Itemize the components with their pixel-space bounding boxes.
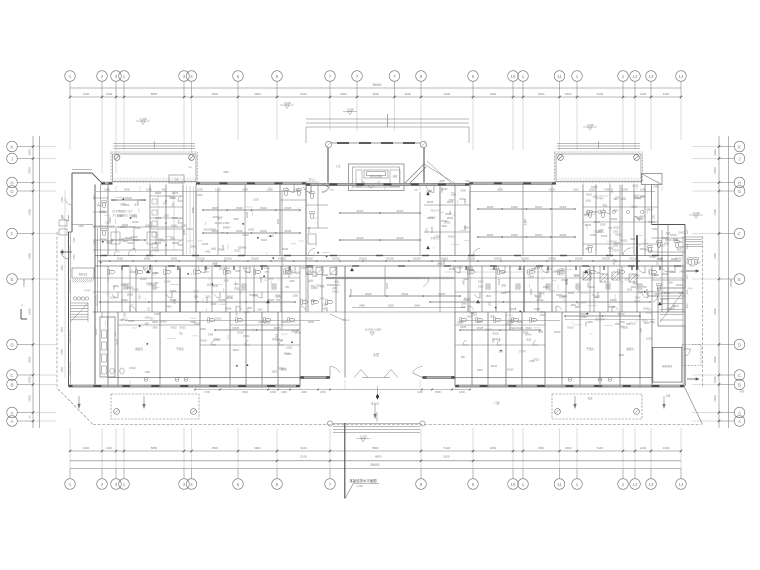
- svg-text:1350: 1350: [315, 284, 321, 287]
- svg-text:2400: 2400: [97, 204, 103, 207]
- svg-text:3400: 3400: [478, 286, 484, 289]
- svg-text:DN40: DN40: [210, 229, 217, 232]
- svg-text:1500: 1500: [164, 214, 170, 217]
- svg-text:DN20: DN20: [654, 293, 661, 296]
- svg-text:DN50: DN50: [227, 295, 234, 298]
- svg-text:3400: 3400: [121, 284, 127, 287]
- svg-text:F: F: [738, 231, 741, 236]
- svg-text:1350: 1350: [566, 279, 568, 285]
- svg-text:DN25: DN25: [646, 288, 649, 295]
- svg-text:1200: 1200: [28, 149, 32, 156]
- svg-text:5100: 5100: [300, 446, 307, 450]
- svg-text:DN32: DN32: [491, 365, 498, 368]
- svg-text:6300: 6300: [713, 308, 717, 315]
- svg-text:1300: 1300: [153, 272, 159, 275]
- svg-text:DN25: DN25: [630, 323, 637, 326]
- svg-text:10: 10: [511, 74, 516, 79]
- svg-text:DN25: DN25: [264, 268, 270, 270]
- svg-text:1060: 1060: [146, 187, 152, 191]
- svg-text:DN32: DN32: [460, 198, 467, 201]
- svg-text:DN32: DN32: [248, 229, 255, 232]
- svg-text:950: 950: [461, 356, 466, 359]
- svg-text:1350: 1350: [173, 202, 175, 208]
- svg-text:3200: 3200: [144, 317, 150, 320]
- svg-text:750: 750: [585, 248, 590, 251]
- svg-text:3600: 3600: [538, 446, 545, 450]
- svg-text:更衣: 更衣: [634, 194, 639, 198]
- svg-text:DN32: DN32: [568, 292, 575, 295]
- svg-text:DN25: DN25: [657, 259, 664, 261]
- svg-text:更衣: 更衣: [677, 247, 682, 251]
- svg-text:1050: 1050: [148, 284, 154, 287]
- svg-text:DN32: DN32: [615, 234, 622, 237]
- svg-text:12: 12: [633, 74, 638, 79]
- svg-text:DN32: DN32: [511, 233, 518, 237]
- svg-text:2900: 2900: [388, 303, 394, 307]
- svg-text:1500: 1500: [647, 295, 653, 298]
- svg-text:DN25: DN25: [130, 271, 137, 274]
- svg-text:750: 750: [179, 332, 184, 335]
- svg-text:5850: 5850: [151, 92, 158, 96]
- svg-text:DN100: DN100: [197, 257, 205, 260]
- svg-text:DN25: DN25: [427, 201, 434, 204]
- svg-text:DN32: DN32: [260, 229, 267, 233]
- svg-text:2600: 2600: [490, 446, 497, 450]
- svg-text:1180: 1180: [281, 390, 287, 394]
- svg-text:2600: 2600: [490, 92, 497, 96]
- svg-text:1300: 1300: [200, 328, 206, 331]
- svg-text:DN32: DN32: [611, 240, 618, 243]
- svg-text:DN20: DN20: [632, 185, 639, 188]
- svg-text:走廊: 走廊: [212, 262, 218, 266]
- svg-text:2400: 2400: [442, 187, 444, 193]
- svg-text:DN32: DN32: [640, 216, 647, 219]
- svg-text:1300: 1300: [592, 196, 598, 199]
- svg-text:DN32: DN32: [511, 205, 518, 209]
- svg-text:J: J: [738, 156, 740, 161]
- svg-text:DN32: DN32: [333, 291, 340, 294]
- svg-text:DN50: DN50: [117, 257, 124, 260]
- svg-text:DN150: DN150: [386, 257, 394, 260]
- svg-text:DN25: DN25: [100, 239, 107, 242]
- svg-text:1050: 1050: [543, 286, 549, 289]
- svg-text:2460: 2460: [414, 303, 420, 307]
- svg-text:1350: 1350: [244, 311, 250, 314]
- svg-text:K: K: [11, 144, 14, 149]
- svg-text:27000: 27000: [22, 278, 26, 287]
- svg-text:DN25: DN25: [125, 196, 132, 200]
- svg-text:DN25: DN25: [397, 236, 404, 240]
- svg-text:DN40: DN40: [585, 224, 592, 227]
- svg-text:1500: 1500: [138, 198, 140, 204]
- svg-text:1800: 1800: [140, 294, 142, 300]
- svg-text:DN100: DN100: [602, 257, 610, 260]
- svg-text:DN25: DN25: [128, 320, 135, 323]
- svg-text:DN20: DN20: [649, 256, 656, 259]
- svg-text:1465: 1465: [604, 187, 610, 191]
- svg-text:DN32: DN32: [594, 231, 601, 234]
- svg-text:DN32: DN32: [260, 206, 267, 210]
- svg-text:DN50: DN50: [308, 226, 311, 233]
- svg-text:1500: 1500: [600, 224, 606, 227]
- svg-text:DN32: DN32: [554, 331, 561, 334]
- svg-text:1300: 1300: [630, 238, 636, 241]
- svg-text:1250: 1250: [294, 187, 300, 191]
- svg-text:1550: 1550: [61, 327, 64, 333]
- svg-text:11: 11: [557, 74, 562, 79]
- svg-text:更衣: 更衣: [295, 270, 300, 274]
- svg-text:5050: 5050: [619, 321, 625, 324]
- svg-text:DN25: DN25: [117, 215, 124, 218]
- svg-text:DN25: DN25: [477, 326, 484, 330]
- svg-text:1500: 1500: [486, 295, 492, 298]
- svg-text:DN20: DN20: [586, 194, 593, 197]
- svg-text:DN50: DN50: [160, 321, 167, 324]
- svg-text:2400: 2400: [110, 216, 112, 222]
- svg-text:1050: 1050: [426, 190, 432, 193]
- svg-text:-0.600: -0.600: [692, 211, 700, 215]
- svg-text:27000: 27000: [729, 278, 733, 287]
- svg-text:DN25: DN25: [429, 216, 436, 219]
- svg-text:1350: 1350: [490, 301, 492, 307]
- svg-text:1035: 1035: [61, 265, 64, 271]
- svg-text:1200: 1200: [713, 149, 717, 156]
- svg-text:12: 12: [633, 482, 638, 487]
- svg-text:1050: 1050: [588, 282, 590, 288]
- svg-text:更衣: 更衣: [169, 195, 174, 199]
- svg-text:1300: 1300: [434, 235, 440, 238]
- svg-text:1520: 1520: [687, 229, 689, 235]
- svg-text:±0.000(-0.080): ±0.000(-0.080): [365, 329, 382, 332]
- svg-text:DN32: DN32: [243, 234, 250, 237]
- svg-text:1250: 1250: [459, 390, 465, 394]
- svg-text:H: H: [10, 180, 13, 185]
- svg-text:DN25: DN25: [530, 288, 533, 295]
- svg-text:3400: 3400: [233, 218, 239, 221]
- svg-text:2400: 2400: [659, 245, 665, 248]
- svg-text:DN25: DN25: [285, 206, 292, 210]
- svg-text:1035: 1035: [74, 237, 76, 243]
- svg-text:1500: 1500: [466, 316, 472, 319]
- svg-text:5100: 5100: [597, 92, 604, 96]
- svg-text:更衣: 更衣: [538, 330, 543, 334]
- svg-text:1850: 1850: [267, 187, 273, 191]
- svg-text:干洗房: 干洗房: [176, 347, 184, 351]
- svg-text:1050: 1050: [154, 250, 160, 253]
- svg-text:1300: 1300: [627, 288, 633, 291]
- svg-text:3200: 3200: [224, 280, 230, 283]
- svg-text:洗衣: 洗衣: [602, 203, 607, 207]
- svg-text:DN25: DN25: [350, 288, 353, 295]
- svg-text:2400: 2400: [460, 190, 466, 193]
- svg-text:1050: 1050: [558, 270, 564, 273]
- svg-text:2400: 2400: [205, 250, 211, 253]
- svg-text:2400: 2400: [101, 211, 107, 214]
- svg-text:1500: 1500: [621, 198, 627, 201]
- svg-text:1300: 1300: [585, 200, 591, 203]
- svg-text:1060: 1060: [517, 268, 523, 271]
- svg-text:DN32: DN32: [679, 292, 686, 295]
- svg-text:1050: 1050: [119, 239, 125, 242]
- svg-text:DN50: DN50: [665, 239, 672, 242]
- svg-text:750: 750: [624, 279, 629, 282]
- svg-text:DN25: DN25: [574, 274, 581, 277]
- svg-text:2500: 2500: [435, 390, 441, 394]
- svg-text:DN32: DN32: [277, 339, 284, 342]
- svg-text:DN25: DN25: [127, 242, 134, 245]
- svg-text:DN50: DN50: [525, 327, 532, 330]
- svg-text:DN20: DN20: [673, 305, 680, 308]
- svg-text:2600: 2600: [497, 187, 503, 191]
- svg-text:3600: 3600: [373, 92, 380, 96]
- svg-text:C: C: [10, 373, 13, 378]
- svg-text:1500: 1500: [448, 199, 454, 202]
- svg-text:DN40: DN40: [441, 220, 448, 223]
- svg-text:1500: 1500: [247, 307, 253, 310]
- svg-text:2400: 2400: [124, 187, 130, 191]
- svg-text:DN25: DN25: [634, 300, 641, 303]
- svg-text:2400: 2400: [469, 312, 475, 315]
- svg-text:DN50: DN50: [664, 292, 671, 295]
- svg-text:DN150: DN150: [521, 257, 529, 260]
- svg-text:DN150: DN150: [467, 257, 475, 260]
- svg-text:1500: 1500: [677, 241, 683, 244]
- svg-text:DN25: DN25: [487, 233, 494, 237]
- svg-text:门廊: 门廊: [494, 401, 500, 405]
- svg-text:DN32: DN32: [486, 329, 493, 332]
- svg-text:DN25: DN25: [492, 332, 499, 335]
- svg-text:6300: 6300: [28, 308, 32, 315]
- svg-text:2400: 2400: [679, 271, 685, 274]
- svg-text:大堂: 大堂: [373, 352, 379, 357]
- svg-text:5850: 5850: [151, 446, 158, 450]
- svg-text:1550: 1550: [622, 187, 628, 191]
- svg-text:1400: 1400: [640, 92, 647, 96]
- svg-text:1150: 1150: [530, 268, 536, 271]
- svg-text:洗衣: 洗衣: [207, 283, 212, 287]
- svg-text:DN50: DN50: [246, 211, 249, 218]
- svg-text:DN25: DN25: [155, 217, 162, 220]
- svg-text:DN25: DN25: [234, 250, 241, 253]
- svg-text:1580: 1580: [181, 224, 187, 227]
- svg-text:1595: 1595: [640, 187, 646, 191]
- svg-text:5100: 5100: [443, 455, 450, 459]
- svg-text:洗衣: 洗衣: [599, 228, 604, 232]
- svg-text:3500: 3500: [242, 390, 248, 394]
- svg-text:1800: 1800: [114, 284, 116, 290]
- svg-text:+0.000: +0.000: [84, 290, 92, 292]
- svg-text:洗衣: 洗衣: [490, 314, 495, 318]
- svg-text:DN50: DN50: [667, 271, 674, 274]
- svg-text:洗衣: 洗衣: [334, 280, 339, 284]
- svg-text:DN32: DN32: [261, 239, 268, 242]
- svg-text:5100: 5100: [300, 92, 307, 96]
- svg-text:DN20: DN20: [646, 312, 653, 315]
- svg-text:G: G: [10, 189, 14, 194]
- svg-text:3100: 3100: [83, 92, 90, 96]
- svg-text:1560: 1560: [687, 303, 689, 309]
- svg-text:DN32: DN32: [236, 229, 243, 233]
- svg-text:上层: 上层: [335, 164, 341, 168]
- svg-text:DN25: DN25: [140, 278, 147, 281]
- svg-text:DN150: DN150: [359, 257, 367, 260]
- svg-text:DN25: DN25: [487, 205, 494, 209]
- svg-text:DN25: DN25: [244, 268, 250, 270]
- svg-text:2400: 2400: [257, 309, 263, 312]
- svg-text:DN25: DN25: [157, 239, 164, 242]
- svg-text:1400: 1400: [106, 446, 113, 450]
- svg-text:DN32: DN32: [187, 228, 194, 231]
- svg-text:1650: 1650: [649, 321, 655, 324]
- svg-text:1000: 1000: [28, 376, 32, 383]
- svg-text:-0.600: -0.600: [346, 108, 354, 112]
- svg-text:2400: 2400: [152, 327, 158, 330]
- svg-text:DN50: DN50: [144, 257, 151, 260]
- svg-text:3000: 3000: [713, 356, 717, 363]
- svg-text:DN25: DN25: [535, 295, 542, 298]
- svg-text:1800: 1800: [565, 92, 572, 96]
- svg-text:洗衣: 洗衣: [620, 324, 625, 328]
- svg-text:DN20: DN20: [567, 327, 574, 330]
- svg-text:DN32: DN32: [662, 273, 669, 276]
- svg-text:1350: 1350: [286, 353, 292, 356]
- svg-text:DN25: DN25: [286, 346, 293, 349]
- svg-text:8800: 8800: [375, 455, 382, 459]
- svg-text:DN50: DN50: [448, 236, 455, 239]
- svg-text:更衣: 更衣: [632, 205, 637, 209]
- svg-text:1800: 1800: [612, 188, 614, 194]
- svg-text:A: A: [11, 419, 14, 424]
- svg-text:DN32: DN32: [233, 349, 240, 352]
- svg-text:更衣: 更衣: [211, 247, 216, 251]
- svg-text:DN150: DN150: [548, 257, 556, 260]
- svg-text:-0.600: -0.600: [283, 101, 291, 105]
- svg-text:950: 950: [145, 323, 150, 326]
- svg-text:下: 下: [376, 420, 379, 423]
- svg-text:DN25: DN25: [447, 217, 454, 220]
- svg-text:DN25: DN25: [560, 233, 567, 237]
- svg-text:1500: 1500: [193, 291, 199, 294]
- svg-text:DN20: DN20: [327, 284, 334, 287]
- svg-text:1500: 1500: [464, 227, 470, 230]
- svg-text:DN20: DN20: [506, 324, 513, 327]
- svg-text:1450: 1450: [61, 197, 64, 203]
- svg-text:3200: 3200: [289, 280, 295, 283]
- svg-text:1750: 1750: [74, 254, 76, 260]
- svg-text:2980: 2980: [359, 303, 365, 307]
- svg-text:1500: 1500: [493, 337, 495, 343]
- svg-text:740: 740: [465, 180, 470, 183]
- svg-text:DN32: DN32: [310, 271, 317, 274]
- svg-text:洗衣: 洗衣: [638, 289, 643, 293]
- svg-text:干洗房: 干洗房: [586, 347, 594, 351]
- svg-text:1700: 1700: [204, 390, 210, 394]
- svg-text:A: A: [11, 410, 14, 415]
- svg-text:2400: 2400: [439, 180, 445, 183]
- svg-text:3200: 3200: [673, 238, 679, 241]
- svg-text:950: 950: [499, 351, 504, 354]
- svg-text:DN20: DN20: [671, 258, 678, 261]
- svg-text:1500: 1500: [523, 332, 529, 335]
- svg-text:1500: 1500: [135, 227, 141, 230]
- svg-text:1570: 1570: [687, 274, 689, 280]
- svg-text:A: A: [738, 410, 741, 415]
- svg-text:DN25: DN25: [678, 232, 685, 235]
- svg-text:DN20: DN20: [556, 294, 563, 297]
- svg-text:1500: 1500: [653, 274, 659, 277]
- svg-text:1800: 1800: [308, 320, 314, 324]
- svg-text:DN40: DN40: [643, 308, 650, 311]
- svg-text:DN20: DN20: [122, 224, 129, 227]
- svg-text:1300: 1300: [613, 245, 619, 248]
- svg-text:1630: 1630: [270, 390, 276, 394]
- svg-text:13: 13: [649, 482, 654, 487]
- svg-text:DN25: DN25: [260, 276, 263, 283]
- svg-text:F: F: [11, 231, 14, 236]
- svg-text:3100: 3100: [663, 92, 670, 96]
- svg-text:DN50: DN50: [590, 234, 597, 237]
- svg-text:DN150: DN150: [305, 257, 313, 260]
- svg-text:洗衣: 洗衣: [194, 294, 199, 298]
- svg-text:DN20: DN20: [533, 359, 540, 362]
- svg-text:C: C: [738, 373, 741, 378]
- svg-text:1500: 1500: [110, 297, 116, 300]
- svg-text:750: 750: [163, 202, 168, 205]
- svg-text:DN50: DN50: [170, 290, 177, 293]
- svg-text:1350: 1350: [223, 244, 225, 250]
- svg-text:DN25: DN25: [219, 298, 226, 302]
- svg-text:消防控制室: 消防控制室: [370, 174, 383, 178]
- svg-text:DN40: DN40: [449, 268, 456, 271]
- svg-text:2400: 2400: [312, 275, 318, 278]
- svg-text:DN32: DN32: [133, 239, 140, 242]
- svg-text:-0.600: -0.600: [586, 123, 594, 127]
- svg-text:4500: 4500: [212, 446, 219, 450]
- svg-text:1500: 1500: [586, 321, 588, 327]
- svg-text:950: 950: [614, 198, 619, 201]
- svg-text:DN50: DN50: [507, 368, 514, 371]
- svg-text:3400: 3400: [635, 296, 641, 299]
- svg-text:DN32: DN32: [537, 298, 544, 302]
- svg-text:1800: 1800: [174, 298, 176, 304]
- svg-text:3200: 3200: [463, 278, 469, 281]
- svg-text:DN25: DN25: [214, 338, 221, 341]
- svg-text:5100: 5100: [444, 92, 451, 96]
- svg-text:1:100: 1:100: [356, 484, 363, 488]
- svg-text:DN32: DN32: [666, 308, 673, 311]
- svg-text:DN32: DN32: [171, 326, 178, 329]
- svg-text:H: H: [738, 180, 741, 185]
- svg-text:DN25: DN25: [438, 292, 445, 296]
- svg-text:DN100: DN100: [251, 257, 259, 260]
- svg-text:750: 750: [285, 286, 290, 289]
- svg-text:DN50: DN50: [591, 186, 598, 189]
- svg-text:DN50: DN50: [171, 257, 178, 260]
- svg-text:DN25: DN25: [127, 294, 134, 297]
- svg-text:2750: 2750: [61, 349, 64, 355]
- svg-text:DN25: DN25: [357, 209, 364, 213]
- svg-text:DN25: DN25: [172, 242, 179, 245]
- svg-text:2400: 2400: [528, 275, 534, 278]
- svg-text:2400: 2400: [639, 196, 645, 199]
- svg-text:1500: 1500: [618, 354, 624, 357]
- svg-text:DN25: DN25: [397, 209, 404, 213]
- svg-text:DN20: DN20: [132, 221, 139, 224]
- svg-text:3900: 3900: [254, 92, 261, 96]
- svg-text:3400: 3400: [570, 304, 576, 307]
- svg-text:2400: 2400: [301, 390, 307, 394]
- svg-text:3400: 3400: [211, 303, 217, 306]
